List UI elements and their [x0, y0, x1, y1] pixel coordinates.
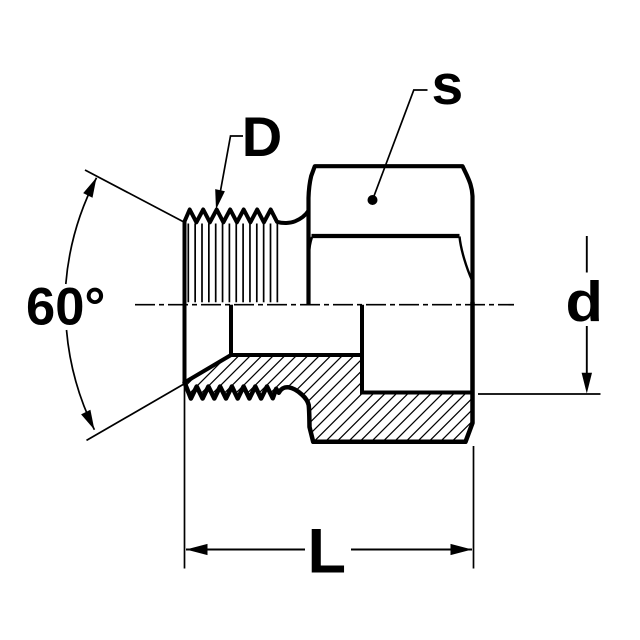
- leader D: [219, 136, 243, 199]
- svg-text:L: L: [308, 517, 346, 587]
- 60-degree dimension arc: [66, 178, 97, 284]
- extension line L left: [184, 385, 186, 569]
- svg-text:60°: 60°: [26, 278, 105, 337]
- hex body outline: [309, 166, 473, 305]
- extension line L right: [473, 446, 475, 569]
- arc arrow bottom: [81, 410, 94, 430]
- bore entry cone: [185, 355, 232, 383]
- svg-text:s: s: [432, 53, 464, 117]
- left face lower: [183, 303, 187, 383]
- dimension d line upper: [586, 236, 588, 273]
- hex facet chamfer arc left: [309, 237, 312, 257]
- dimension d line lower: [586, 326, 588, 385]
- bore line: [231, 353, 362, 357]
- hex facet chamfer arc right: [460, 237, 473, 282]
- svg-text:D: D: [242, 105, 282, 168]
- male thread top outline (left face + crest zigzag + runout): [185, 210, 309, 305]
- lower outer profile: root zigzag + runout shoulder + step + bottom face + chamfer + right face: [185, 303, 473, 442]
- dimension L line left: [186, 549, 305, 551]
- leader s: [373, 90, 428, 200]
- counterbore step edge: [360, 305, 364, 393]
- arc arrow top: [83, 178, 96, 198]
- 60-degree cone line upper: [85, 170, 185, 223]
- cone end edge: [229, 305, 233, 355]
- svg-text:d: d: [566, 270, 604, 334]
- L arrow left: [186, 544, 208, 555]
- extension line for d: [478, 393, 601, 395]
- leader D arrow: [215, 189, 225, 209]
- leader s dot: [368, 195, 378, 205]
- 60-degree cone line lower: [87, 384, 185, 441]
- hex facet line: [312, 234, 460, 238]
- centerline: [135, 304, 514, 306]
- counterbore bottom: [360, 391, 473, 395]
- dimension L line right: [351, 549, 472, 551]
- dimension d arrow: [582, 373, 592, 394]
- thread flank lines: [188, 224, 277, 303]
- L arrow right: [451, 544, 473, 555]
